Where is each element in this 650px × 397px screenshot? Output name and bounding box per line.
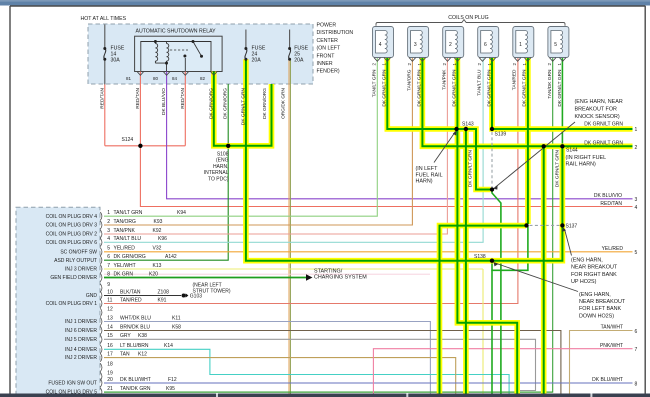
svg-text:5: 5 (635, 250, 638, 256)
svg-text:(ENG: (ENG (216, 158, 229, 164)
svg-text:DK GRN/LT GRN: DK GRN/LT GRN (452, 69, 458, 107)
svg-text:K13: K13 (153, 263, 162, 269)
svg-text:INJ 4 DRIVER: INJ 4 DRIVER (65, 347, 97, 353)
svg-text:1: 1 (107, 210, 110, 216)
svg-text:FUSED IGN SW OUT: FUSED IGN SW OUT (48, 381, 97, 387)
svg-text:TAN/LT BLU: TAN/LT BLU (114, 236, 142, 242)
svg-text:8: 8 (107, 271, 110, 277)
svg-text:16: 16 (107, 343, 113, 349)
svg-text:K95: K95 (166, 386, 175, 392)
svg-text:3: 3 (635, 197, 638, 203)
svg-text:(ENG HARN, NEAR: (ENG HARN, NEAR (575, 99, 623, 105)
svg-text:INJ 2 DRIVER: INJ 2 DRIVER (65, 355, 97, 361)
svg-text:NEAR BREAKOUT: NEAR BREAKOUT (579, 299, 626, 305)
svg-text:2: 2 (449, 42, 452, 48)
svg-text:17: 17 (107, 351, 113, 357)
svg-text:TAN/PNK: TAN/PNK (442, 69, 448, 90)
svg-text:GEN FIELD DRIVER: GEN FIELD DRIVER (50, 275, 97, 281)
svg-text:S138: S138 (474, 254, 486, 260)
svg-text:DK GRN/LT GRN: DK GRN/LT GRN (381, 69, 387, 107)
svg-text:NEAR BREAKOUT: NEAR BREAKOUT (571, 265, 618, 271)
svg-text:1: 1 (519, 42, 522, 48)
svg-text:2: 2 (635, 145, 638, 151)
svg-text:COIL ON PLUG DRV 3: COIL ON PLUG DRV 3 (46, 223, 98, 229)
svg-text:K94: K94 (177, 210, 186, 216)
svg-text:COILS ON PLUG: COILS ON PLUG (448, 15, 488, 21)
svg-text:K20: K20 (149, 271, 158, 277)
svg-text:(ENG HARN,: (ENG HARN, (579, 292, 611, 298)
svg-text:V32: V32 (153, 246, 162, 252)
svg-text:81: 81 (126, 76, 132, 81)
svg-text:STARTING/: STARTING/ (314, 268, 343, 274)
svg-text:FUEL RAIL: FUEL RAIL (416, 172, 443, 178)
svg-text:TAN/WHT: TAN/WHT (601, 325, 623, 331)
svg-text:HOT AT ALL TIMES: HOT AT ALL TIMES (81, 16, 127, 22)
svg-text:INJ 3 DRIVER: INJ 3 DRIVER (65, 267, 97, 273)
svg-text:(ENG HARN,: (ENG HARN, (571, 258, 603, 264)
svg-text:4: 4 (107, 236, 110, 242)
svg-text:FOR RIGHT BANK: FOR RIGHT BANK (571, 272, 617, 278)
svg-text:RED/TAN: RED/TAN (135, 87, 141, 108)
svg-text:18: 18 (107, 361, 113, 367)
svg-text:YEL/RED: YEL/RED (114, 246, 136, 252)
svg-text:FRONT: FRONT (317, 53, 336, 59)
svg-text:TAN: TAN (120, 351, 130, 357)
svg-text:ORG/DK GRN: ORG/DK GRN (281, 87, 287, 118)
svg-text:24: 24 (252, 51, 258, 57)
svg-text:DK GRN/LT GRN: DK GRN/LT GRN (555, 149, 561, 187)
svg-text:20A: 20A (294, 58, 304, 64)
svg-text:A142: A142 (165, 254, 177, 260)
svg-text:COIL ON PLUG DRV 6: COIL ON PLUG DRV 6 (46, 240, 98, 246)
svg-text:DK GRN: DK GRN (114, 271, 134, 277)
svg-text:20: 20 (107, 377, 113, 383)
svg-text:(ON LEFT: (ON LEFT (317, 46, 341, 52)
svg-text:DK GRN/LT GRN: DK GRN/LT GRN (557, 69, 563, 107)
svg-text:S137: S137 (566, 223, 578, 229)
svg-text:TAN/DK GRN: TAN/DK GRN (547, 69, 553, 99)
svg-text:14: 14 (107, 324, 113, 330)
svg-text:8: 8 (635, 382, 638, 388)
svg-text:10: 10 (107, 289, 113, 295)
svg-text:6: 6 (107, 254, 110, 260)
svg-text:DK GRN/ORG: DK GRN/ORG (223, 88, 229, 119)
svg-text:TAN/DK GRN: TAN/DK GRN (120, 386, 151, 392)
svg-text:DK GRN/ORG: DK GRN/ORG (262, 88, 268, 119)
svg-text:BRN/DK BLU: BRN/DK BLU (120, 324, 150, 330)
svg-text:CHARGING SYSTEM: CHARGING SYSTEM (314, 275, 367, 281)
svg-text:HARN,: HARN, (213, 164, 229, 170)
svg-text:7: 7 (107, 263, 110, 269)
svg-text:TAN/PNK: TAN/PNK (114, 228, 136, 234)
svg-text:S143: S143 (462, 122, 474, 128)
svg-text:21: 21 (107, 386, 113, 392)
svg-text:82: 82 (200, 76, 206, 81)
svg-text:INTERNAL: INTERNAL (204, 170, 229, 176)
svg-text:DK GRN/ORG: DK GRN/ORG (114, 254, 146, 260)
svg-text:INJ 1 DRIVER: INJ 1 DRIVER (65, 319, 97, 325)
svg-text:DK BLU/WHT: DK BLU/WHT (592, 377, 623, 383)
svg-text:COIL ON PLUG DRV 1: COIL ON PLUG DRV 1 (46, 301, 98, 307)
svg-text:COIL ON PLUG DRV 4: COIL ON PLUG DRV 4 (46, 214, 98, 220)
svg-text:HARN): HARN) (416, 179, 433, 185)
svg-text:DOWN HO2S): DOWN HO2S) (579, 313, 614, 319)
svg-text:14: 14 (111, 51, 117, 57)
svg-text:F12: F12 (168, 377, 177, 383)
svg-text:6: 6 (484, 42, 487, 48)
svg-text:11: 11 (107, 297, 112, 303)
svg-text:DK GRN/ORG: DK GRN/ORG (208, 88, 214, 119)
svg-text:POWER: POWER (317, 23, 337, 29)
svg-text:K12: K12 (138, 351, 147, 357)
svg-text:20A: 20A (252, 58, 262, 64)
svg-text:30A: 30A (111, 58, 121, 64)
svg-text:TAN/RED: TAN/RED (512, 69, 518, 90)
svg-text:4: 4 (379, 42, 382, 48)
svg-text:K92: K92 (153, 228, 162, 234)
svg-text:INJ 5 DRIVER: INJ 5 DRIVER (65, 337, 97, 343)
svg-text:(IN RIGHT FUEL: (IN RIGHT FUEL (566, 155, 607, 161)
svg-text:2: 2 (107, 219, 110, 225)
svg-text:25: 25 (294, 51, 300, 57)
svg-text:1: 1 (635, 127, 638, 133)
svg-text:LT BLU/BRN: LT BLU/BRN (120, 343, 149, 349)
svg-text:DK GRN/LT GRN: DK GRN/LT GRN (584, 121, 623, 127)
svg-text:6: 6 (635, 329, 638, 335)
svg-text:84: 84 (172, 76, 178, 81)
svg-text:COIL ON PLUG DRV 2: COIL ON PLUG DRV 2 (46, 232, 98, 238)
svg-text:12: 12 (107, 306, 113, 312)
svg-text:GND: GND (86, 293, 98, 299)
svg-text:DK GRN/LT GRN: DK GRN/LT GRN (467, 149, 473, 187)
svg-text:CENTER: CENTER (317, 38, 339, 44)
svg-text:S139: S139 (495, 132, 507, 138)
svg-text:S124: S124 (122, 137, 134, 143)
svg-text:RED/TAN: RED/TAN (180, 87, 186, 108)
svg-text:YEL/RED: YEL/RED (602, 246, 624, 252)
svg-text:TAN/RED: TAN/RED (120, 297, 142, 303)
svg-text:S144: S144 (566, 148, 578, 154)
svg-text:TAN/ORG: TAN/ORG (114, 219, 137, 225)
svg-text:K38: K38 (138, 333, 147, 339)
svg-text:INJ 6 DRIVER: INJ 6 DRIVER (65, 328, 97, 334)
svg-text:RED/TAN: RED/TAN (600, 201, 622, 207)
svg-text:DK BLU/VIO: DK BLU/VIO (161, 88, 167, 115)
svg-text:DK GRN/LT GRN: DK GRN/LT GRN (487, 69, 493, 107)
svg-text:4: 4 (635, 205, 638, 211)
svg-text:80: 80 (153, 76, 159, 81)
svg-text:FENDER): FENDER) (317, 69, 340, 75)
svg-text:SC ON/OFF SW: SC ON/OFF SW (60, 249, 97, 255)
svg-text:Z108: Z108 (158, 289, 170, 295)
svg-text:RAIL HARN): RAIL HARN) (566, 161, 597, 167)
svg-text:TO PDC): TO PDC) (208, 176, 229, 182)
svg-text:TAN/LT BLU: TAN/LT BLU (477, 69, 483, 96)
svg-text:DK BLU/VIO: DK BLU/VIO (594, 193, 622, 199)
svg-text:(IN LEFT: (IN LEFT (416, 166, 439, 172)
svg-text:DK GRN/LT GRN: DK GRN/LT GRN (522, 69, 528, 107)
svg-text:K58: K58 (172, 324, 181, 330)
svg-text:INNER: INNER (317, 61, 333, 67)
svg-text:DK BLU/WHT: DK BLU/WHT (120, 377, 151, 383)
svg-text:13: 13 (107, 315, 113, 321)
svg-text:5: 5 (554, 42, 557, 48)
svg-text:TAN/LT GRN: TAN/LT GRN (371, 69, 377, 97)
svg-text:5: 5 (107, 246, 110, 252)
svg-text:FOR LEFT BANK: FOR LEFT BANK (579, 306, 622, 312)
svg-text:K14: K14 (164, 343, 173, 349)
svg-text:TAN/ORG: TAN/ORG (407, 69, 413, 91)
svg-text:K93: K93 (154, 219, 163, 225)
svg-text:KNOCK SENSOR): KNOCK SENSOR) (575, 114, 620, 120)
svg-text:7: 7 (635, 347, 638, 353)
svg-text:TAN/LT GRN: TAN/LT GRN (114, 210, 143, 216)
svg-text:AUTOMATIC SHUTDOWN RELAY: AUTOMATIC SHUTDOWN RELAY (136, 28, 217, 34)
svg-text:RED/TAN: RED/TAN (99, 87, 105, 108)
svg-text:G103: G103 (190, 294, 202, 300)
svg-text:BLK/TAN: BLK/TAN (120, 289, 141, 295)
svg-text:3: 3 (107, 228, 110, 234)
svg-text:K91: K91 (158, 297, 167, 303)
svg-text:K96: K96 (158, 236, 167, 242)
svg-text:9: 9 (107, 282, 110, 288)
svg-text:DK GRN/LT GRN: DK GRN/LT GRN (417, 69, 423, 107)
svg-text:15: 15 (107, 333, 113, 339)
svg-text:S108: S108 (217, 152, 229, 158)
svg-text:ASD RLY OUTPUT: ASD RLY OUTPUT (54, 258, 97, 264)
svg-text:3: 3 (414, 42, 417, 48)
svg-text:DK GRN/LT GRN: DK GRN/LT GRN (240, 87, 246, 125)
svg-text:DISTRIBUTION: DISTRIBUTION (317, 30, 354, 36)
svg-text:UP HO2S): UP HO2S) (571, 279, 597, 285)
svg-text:19: 19 (107, 370, 113, 376)
svg-text:PNK/WHT: PNK/WHT (600, 343, 623, 349)
svg-text:WHT/DK BLU: WHT/DK BLU (120, 315, 151, 321)
svg-text:BREAKOUT FOR: BREAKOUT FOR (575, 107, 618, 113)
svg-text:GRY: GRY (120, 333, 131, 339)
svg-text:K11: K11 (172, 315, 181, 321)
svg-text:YEL/WHT: YEL/WHT (114, 263, 136, 269)
svg-text:DK GRN/LT GRN: DK GRN/LT GRN (584, 140, 623, 146)
